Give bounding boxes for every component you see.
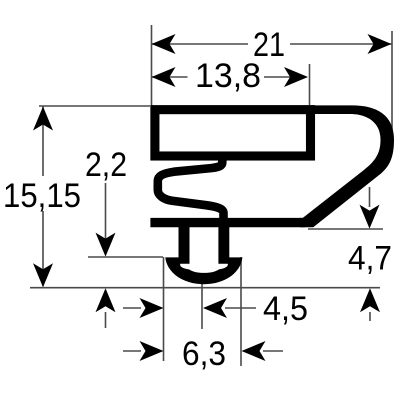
15,15 up: [33, 107, 53, 131]
2,2 down: [96, 233, 116, 257]
thin dimension/extension lines: [30, 25, 392, 366]
4,5 left-arrow: [140, 298, 164, 318]
2,2 leader and refs: [88, 183, 163, 328]
21 right: [368, 34, 392, 54]
13,8 right: [284, 67, 308, 87]
svg-text:13,8: 13,8: [195, 57, 261, 95]
svg-text:2,2: 2,2: [85, 146, 127, 184]
6,3 left-arrow: [140, 341, 164, 361]
bottom mounting bar: [150, 218, 305, 227]
dim 4,5: [123, 307, 256, 309]
dim line 15,15: [42, 107, 44, 287]
dimension texts: [195, 26, 285, 95]
svg-text:4,5: 4,5: [263, 290, 308, 328]
dim 6,3: [123, 350, 283, 352]
svg-text:6,3: 6,3: [182, 335, 226, 373]
top-left horizontal reference: [39, 105, 150, 107]
push-in mushroom foot: [165, 226, 242, 284]
dim line 13,8: [152, 76, 304, 78]
baseline: [30, 287, 380, 289]
magnet pocket rectangle: [155, 110, 311, 156]
4,7 down: [360, 205, 380, 229]
4,7 up: [360, 288, 380, 312]
ext line left top: [151, 25, 153, 106]
gasket profile: thick outline: [150, 110, 310, 223]
6,3 right-arrow: [242, 341, 266, 361]
arrowheads: [33, 34, 392, 361]
dim line 21: [152, 43, 392, 45]
bottom ext lines: [164, 257, 242, 366]
svg-text:4,7: 4,7: [348, 239, 392, 277]
21 left: [152, 34, 176, 54]
4,5 right-arrow: [203, 298, 227, 318]
15,15 down: [33, 263, 53, 287]
bellows S-curve: [158, 158, 224, 221]
svg-text:15,15: 15,15: [3, 177, 81, 215]
bulb: filled ring (top-right hollow lip): [300, 105, 394, 227]
ext line right top: [391, 31, 393, 130]
ext line 13,8: [309, 64, 311, 105]
2,2 up: [96, 288, 116, 312]
13,8 left: [152, 67, 176, 87]
4,7 leader and ref: [308, 187, 383, 321]
